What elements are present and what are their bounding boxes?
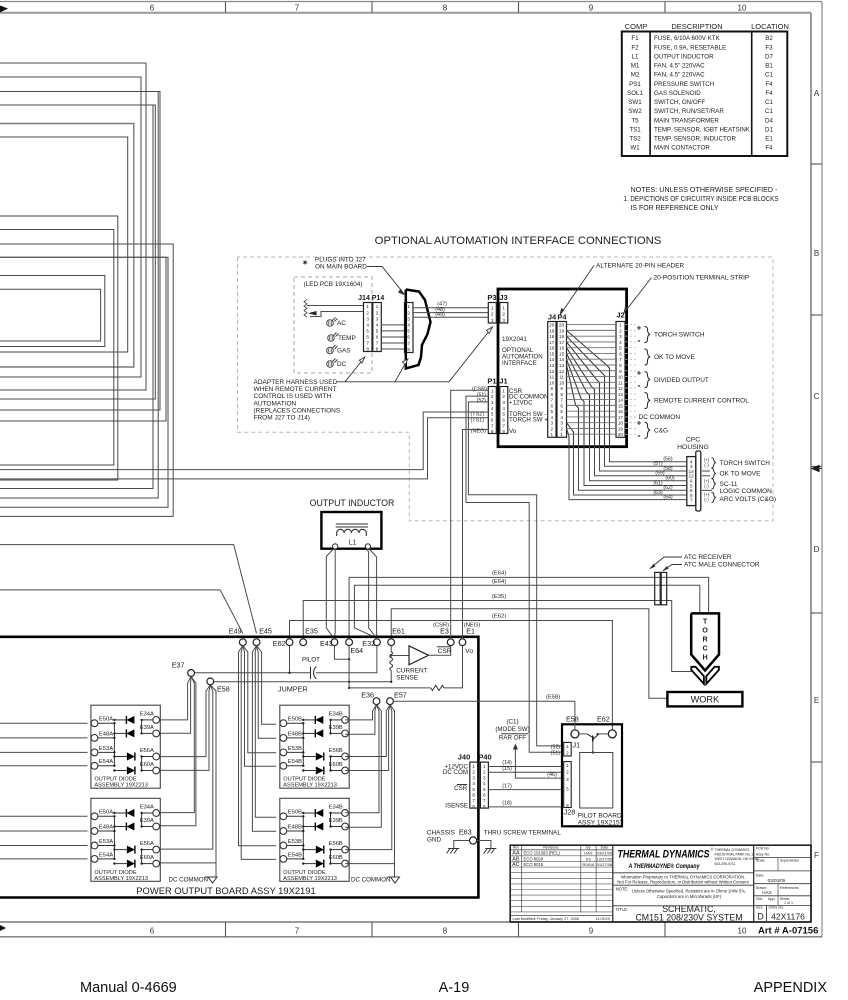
wires P4 to J2 rows: [567, 324, 617, 326]
svg-text:E58: E58: [566, 715, 579, 724]
svg-text:01/27/06: 01/27/06: [597, 862, 613, 867]
svg-text:1: 1: [619, 323, 622, 328]
svg-text:+12VDC: +12VDC: [509, 399, 533, 406]
svg-text:NOTE:: NOTE:: [616, 886, 629, 891]
sheet centre arrow top-left: [0, 6, 8, 13]
svg-text:Date:: Date:: [756, 874, 765, 878]
svg-text:4: 4: [491, 406, 494, 411]
svg-text:-: -: [638, 430, 641, 440]
terminal E39A: [153, 823, 160, 830]
sheet centre arrow right: [811, 465, 820, 472]
svg-text:2: 2: [566, 751, 569, 756]
svg-text:Supersedes: Supersedes: [780, 859, 799, 863]
svg-text:6: 6: [619, 351, 622, 356]
svg-text:5: 5: [483, 787, 486, 792]
svg-text:DC: DC: [337, 361, 347, 368]
terminal E53A: [91, 749, 98, 756]
svg-text:THRU SCREW TERMINAL: THRU SCREW TERMINAL: [484, 830, 562, 837]
svg-text:C&G: C&G: [654, 428, 668, 435]
svg-text:Manual 0-4669: Manual 0-4669: [80, 980, 177, 996]
svg-text:OK TO MOVE: OK TO MOVE: [654, 354, 696, 361]
svg-text:17: 17: [559, 340, 565, 345]
svg-text:5: 5: [619, 346, 622, 351]
svg-text:E45: E45: [259, 627, 272, 636]
LED indicator DC: [327, 361, 334, 368]
svg-text:11: 11: [549, 375, 554, 380]
svg-text:2: 2: [560, 426, 563, 431]
svg-text:(14): (14): [502, 760, 512, 766]
svg-text:GAS SOLENOID: GAS SOLENOID: [654, 90, 701, 97]
svg-text:H: H: [702, 653, 707, 662]
svg-text:OK TO MOVE: OK TO MOVE: [720, 471, 762, 478]
svg-text:R: R: [702, 635, 708, 644]
svg-text:5: 5: [560, 409, 563, 414]
svg-text:6: 6: [491, 418, 494, 423]
terminal E39A: [153, 730, 160, 737]
svg-text:E50A: E50A: [99, 810, 113, 816]
svg-text:16: 16: [549, 346, 555, 351]
op-amp current sense amplifier: [391, 655, 409, 657]
svg-text:WEST LEBANON, NH 03784: WEST LEBANON, NH 03784: [715, 857, 759, 861]
svg-text:2: 2: [551, 426, 554, 431]
terminal E58 bundle: [207, 678, 214, 685]
svg-text:603-298-5711: 603-298-5711: [715, 862, 736, 866]
svg-text:9: 9: [589, 4, 594, 13]
ATC male connector bar: [661, 572, 667, 604]
svg-text:PS1: PS1: [629, 81, 641, 88]
svg-text:PLUGS INTO J27: PLUGS INTO J27: [315, 257, 366, 264]
svg-text:OUTPUT INDUCTOR: OUTPUT INDUCTOR: [310, 498, 395, 508]
leader arrow to adapter connector: [395, 360, 408, 382]
svg-text:R0916: R0916: [583, 862, 596, 867]
diodes (B): [315, 809, 323, 817]
svg-text:4: 4: [502, 406, 505, 411]
svg-text:C: C: [814, 392, 820, 401]
svg-text:(15): (15): [502, 766, 512, 772]
svg-text:7: 7: [551, 398, 554, 403]
wire E64 net 2 to ATC and torch: [354, 585, 699, 637]
svg-text:10: 10: [549, 380, 555, 385]
svg-text:2: 2: [483, 770, 486, 775]
svg-text:THERMAL DYNAMICS: THERMAL DYNAMICS: [618, 848, 711, 860]
svg-text:F1: F1: [631, 35, 639, 42]
svg-text:E37: E37: [172, 660, 185, 669]
svg-text:E35: E35: [305, 627, 318, 636]
svg-text:1: 1: [366, 304, 369, 309]
terminal E49: [239, 639, 246, 646]
wire TS1 net from sheet left to P1 pin 6: [0, 418, 489, 479]
component table box: [622, 32, 788, 157]
svg-text:APPENDIX: APPENDIX: [754, 980, 828, 996]
svg-text:3: 3: [502, 318, 505, 324]
wire loop from left sheet half #13: [0, 230, 114, 466]
svg-text:E58: E58: [217, 685, 230, 694]
terminal E39B: [342, 823, 349, 830]
svg-text:7: 7: [407, 341, 410, 346]
svg-text:E48A: E48A: [99, 824, 113, 830]
svg-text:P40: P40: [478, 753, 491, 762]
chassis ground symbol left: [454, 841, 470, 849]
dashed boundary of optional automation illustration: [238, 257, 774, 521]
terminal E35: [300, 639, 307, 646]
inductor terminal left: [333, 544, 338, 549]
svg-text:ISENSE: ISENSE: [445, 802, 468, 809]
svg-text:9: 9: [560, 386, 563, 391]
svg-text:ATC RECEIVER: ATC RECEIVER: [684, 554, 732, 561]
svg-text:TEMP. SENSOR, INDUCTOR: TEMP. SENSOR, INDUCTOR: [654, 136, 736, 143]
svg-text:CSR: CSR: [454, 785, 468, 792]
terminal E39B: [342, 730, 349, 737]
pilot terminal E62: [608, 730, 616, 738]
svg-text:(49): (49): [435, 312, 445, 318]
svg-text:E54B: E54B: [288, 759, 302, 765]
leader arrow to adapter: [367, 267, 405, 296]
svg-text:TORCH SW +: TORCH SW +: [509, 417, 548, 424]
svg-text:J1: J1: [499, 377, 507, 386]
svg-text:B: B: [814, 249, 819, 258]
svg-text:SW1: SW1: [628, 99, 642, 106]
svg-text:E32: E32: [362, 639, 375, 648]
svg-text:1: 1: [566, 763, 569, 768]
svg-text:(E64): (E64): [492, 570, 506, 576]
terminal E32: [374, 639, 381, 646]
svg-text:E50A: E50A: [99, 717, 113, 723]
svg-text:15: 15: [559, 351, 565, 356]
svg-text:5: 5: [491, 412, 494, 417]
svg-text:5: 5: [366, 328, 369, 333]
svg-text:ECO 101583 (REL): ECO 101583 (REL): [524, 851, 561, 856]
svg-text:6: 6: [150, 927, 155, 936]
svg-text:E43: E43: [320, 639, 333, 648]
svg-text:16: 16: [559, 346, 565, 351]
svg-text:8: 8: [366, 347, 369, 352]
svg-text:4: 4: [376, 322, 379, 327]
svg-text:1: 1: [566, 744, 569, 749]
svg-text:E49: E49: [229, 627, 242, 636]
terminal E50B: [280, 813, 287, 820]
svg-text:Vo: Vo: [465, 648, 473, 655]
wire loop from left sheet half #2: [0, 92, 158, 499]
svg-text:E56A: E56A: [140, 748, 154, 754]
wire bundle E45 to E50B E48B: [252, 646, 276, 832]
svg-text:L1: L1: [349, 540, 357, 547]
svg-text:19: 19: [618, 426, 624, 431]
svg-text:By: By: [586, 846, 590, 850]
svg-text:HOUSING: HOUSING: [677, 444, 709, 451]
LED indicator TEMP: [328, 335, 335, 342]
RAR OFF arrow and wire 46 to pilot J28 pin3: [515, 746, 562, 778]
svg-text:PCB No:: PCB No:: [756, 846, 770, 850]
svg-text:(17): (17): [502, 783, 512, 789]
wire to terminal E49 from sheet left: [0, 590, 243, 633]
svg-text:Size: Size: [756, 906, 763, 910]
terminal E43: [331, 639, 338, 646]
diodes (B): [315, 716, 323, 724]
wire bundle E36 to E34B E39B: [345, 705, 376, 720]
svg-text:AC: AC: [512, 862, 520, 868]
svg-text:ARC VOLTS (C&G): ARC VOLTS (C&G): [720, 496, 777, 503]
svg-text:OUTPUT INDUCTOR: OUTPUT INDUCTOR: [654, 53, 714, 60]
svg-text:FUSE, 6/10A 600V KTK: FUSE, 6/10A 600V KTK: [654, 35, 721, 42]
svg-text:4: 4: [366, 322, 369, 327]
svg-text:10: 10: [618, 375, 624, 380]
wires from automation box to CPC: [610, 447, 687, 462]
leader arrow to J2: [624, 278, 652, 314]
svg-text:OPTIONAL AUTOMATION INTERFACE: OPTIONAL AUTOMATION INTERFACE CONNECTION…: [375, 235, 662, 247]
svg-text:T: T: [703, 617, 708, 626]
wires 47 48 49 adapter to P3: [413, 307, 488, 309]
svg-text:20: 20: [559, 323, 565, 328]
svg-text:JUMPER: JUMPER: [278, 685, 308, 694]
CPC housing body: [696, 451, 701, 511]
terminal E34A: [153, 717, 160, 724]
svg-text:7: 7: [472, 798, 475, 803]
svg-text:13: 13: [618, 392, 624, 397]
svg-text:ECO 8028: ECO 8028: [524, 856, 544, 861]
leader arrow to P3 connector: [449, 328, 492, 382]
svg-text:5: 5: [566, 787, 569, 792]
svg-text:D: D: [757, 912, 764, 922]
svg-text:4: 4: [472, 781, 475, 786]
svg-text:INDUSTRIAL PARK No. 2: INDUSTRIAL PARK No. 2: [715, 853, 754, 857]
svg-text:F4: F4: [765, 81, 773, 88]
wire 14 P40 pin1 to pilot J28 pin1: [488, 766, 562, 768]
svg-text:WORK: WORK: [691, 695, 720, 705]
svg-text:3: 3: [551, 421, 554, 426]
svg-text:DC COMMON: DC COMMON: [351, 877, 391, 884]
svg-text:F4: F4: [765, 90, 773, 97]
zone letter band right: [811, 163, 822, 165]
svg-text:M2: M2: [631, 72, 640, 79]
svg-text:2: 2: [502, 312, 505, 318]
connector J28 pilot: [564, 762, 572, 808]
svg-text:ASSEMBLY 19X2213: ASSEMBLY 19X2213: [94, 876, 148, 882]
svg-text:Capacitors are in Microfarads: Capacitors are in Microfarads (UF): [657, 894, 722, 899]
svg-text:10: 10: [738, 4, 747, 13]
wires left diode assemblies to sheet left: [0, 722, 88, 724]
svg-text:E64: E64: [350, 646, 363, 655]
terminal E56B: [342, 753, 349, 760]
svg-text:PRESSURE SWITCH: PRESSURE SWITCH: [654, 81, 714, 88]
svg-text:DESCRIPTION: DESCRIPTION: [671, 22, 722, 31]
svg-text:6: 6: [376, 334, 379, 339]
inductor terminal right: [365, 544, 370, 549]
title block middle dividers: [753, 845, 755, 922]
svg-text:13: 13: [559, 363, 565, 368]
inductor L1 box: [321, 512, 381, 549]
svg-text:WHEN REMOTE CURRENT: WHEN REMOTE CURRENT: [254, 386, 337, 393]
svg-text:11:05:29: 11:05:29: [596, 917, 611, 921]
wire loop from left sheet half #10: [0, 257, 168, 507]
svg-text:5: 5: [472, 787, 475, 792]
inner drawing border right: [810, 13, 812, 922]
CPC annotation ok to move: [702, 470, 710, 472]
svg-text:Chk:: Chk:: [756, 897, 763, 901]
terminal E60B: [342, 860, 349, 867]
terminal E56A: [153, 846, 160, 853]
svg-text:E34B: E34B: [329, 712, 343, 718]
svg-text:M1: M1: [631, 63, 640, 70]
wire loop from left sheet half #6: [0, 77, 141, 377]
svg-text:E36: E36: [361, 690, 374, 699]
terminal E1: [459, 639, 466, 646]
svg-text:INTERFACE: INTERFACE: [502, 360, 537, 367]
svg-text:8: 8: [376, 347, 379, 352]
svg-text:8: 8: [443, 927, 448, 936]
terminal E34B: [342, 717, 349, 724]
svg-text:J2: J2: [616, 311, 624, 320]
svg-text:8: 8: [443, 4, 448, 13]
svg-text:F: F: [814, 851, 819, 860]
svg-text:14: 14: [559, 357, 565, 362]
J2 annotation ok to move: [645, 349, 651, 365]
svg-text:C1: C1: [765, 72, 773, 79]
svg-text:TORCH SWITCH: TORCH SWITCH: [654, 332, 705, 339]
svg-text:1: 1: [502, 388, 505, 393]
svg-text:3: 3: [483, 775, 486, 780]
svg-text:DC COMMON: DC COMMON: [169, 877, 209, 884]
svg-text:PILOT BOARD: PILOT BOARD: [578, 812, 622, 819]
svg-text:B1: B1: [765, 63, 773, 70]
svg-text:GND: GND: [427, 837, 442, 844]
svg-text:Revisions: Revisions: [543, 846, 559, 850]
svg-text:E54A: E54A: [99, 759, 113, 765]
svg-text:9: 9: [589, 927, 594, 936]
svg-text:DWG No:: DWG No:: [769, 906, 784, 910]
rail E58 to current sense resistor: [210, 682, 391, 685]
svg-text:7: 7: [560, 398, 563, 403]
svg-text:14: 14: [549, 357, 555, 362]
wire P1 pin2 to pilot J1 pin2: [466, 396, 562, 752]
svg-text:(CSR): (CSR): [433, 622, 449, 628]
torch chevron left: [691, 667, 704, 684]
terminal E56A: [153, 753, 160, 760]
wire work return from E61: [391, 609, 667, 699]
power output board outline: [0, 637, 478, 898]
svg-text:ON MAIN BOARD: ON MAIN BOARD: [315, 264, 367, 271]
svg-text:ASSY 19X2157: ASSY 19X2157: [578, 820, 624, 827]
J2 annotation remote current control: [645, 393, 651, 409]
svg-text:MAIN TRANSFORMER: MAIN TRANSFORMER: [654, 117, 719, 124]
title block outline: [510, 845, 811, 922]
svg-text:✶: ✶: [301, 258, 308, 268]
svg-text:SOL1: SOL1: [627, 90, 643, 97]
wire P1 pin3 to pilot J1 pin1: [468, 402, 562, 746]
svg-text:ASSEMBLY 19X2213: ASSEMBLY 19X2213: [94, 783, 148, 789]
sheet centre arrow bottom-left: [0, 925, 6, 931]
svg-text:03/21/05: 03/21/05: [597, 851, 613, 856]
svg-text:18: 18: [549, 334, 555, 339]
terminal E37 bundle: [188, 670, 195, 677]
terminal E34B: [342, 810, 349, 817]
diode assembly internal wiring (A): [113, 816, 115, 859]
svg-text:(57): (57): [653, 461, 662, 467]
svg-text:3: 3: [491, 318, 494, 324]
wire 15 P40 pin2 to pilot J28 pin2: [488, 771, 562, 773]
svg-text:P1: P1: [487, 377, 496, 386]
leader to ATC receiver bar: [650, 557, 682, 569]
svg-text:20: 20: [618, 432, 624, 437]
svg-text:E50B: E50B: [288, 810, 302, 816]
svg-text:3: 3: [560, 421, 563, 426]
svg-text:COMP: COMP: [625, 22, 648, 31]
svg-text:2: 2: [366, 310, 369, 315]
wire E35 net to ATC chevron: [303, 601, 693, 672]
svg-text:1: 1: [560, 432, 563, 437]
svg-text:13: 13: [549, 363, 555, 368]
svg-text:3: 3: [566, 777, 569, 782]
pilot board outline: [562, 724, 622, 826]
svg-text:2: 2: [472, 770, 475, 775]
svg-text:15: 15: [618, 403, 624, 408]
wire bundle E57 to E56B E60B: [345, 705, 390, 757]
wire E62 riser to pilot rail: [289, 646, 291, 673]
svg-text:Vo: Vo: [509, 428, 517, 435]
wire 17 P40 pin5 to pilot J28 pin5: [488, 789, 562, 791]
svg-text:(-): (-): [704, 497, 709, 502]
svg-text:6: 6: [551, 403, 554, 408]
pilot terminal E58: [571, 730, 579, 738]
wire loop from left sheet half #11: [0, 257, 166, 421]
svg-text:CHASSIS: CHASSIS: [427, 830, 455, 837]
svg-text:References: References: [780, 886, 799, 890]
svg-text:6: 6: [560, 403, 563, 408]
svg-text:P4: P4: [557, 313, 567, 322]
svg-text:ECO 8016: ECO 8016: [524, 862, 544, 867]
terminal E50A: [91, 720, 98, 727]
svg-text:(59): (59): [655, 471, 664, 477]
svg-text:2: 2: [491, 312, 494, 318]
adapter harness connector pins: [405, 303, 414, 353]
svg-text:1: 1: [491, 388, 494, 393]
svg-text:IS FOR REFERENCE ONLY: IS FOR REFERENCE ONLY: [631, 203, 719, 212]
wire loop from left sheet half #5: [0, 63, 146, 390]
svg-text:(E62): (E62): [492, 614, 506, 620]
svg-text:(REPLACES CONNECTIONS: (REPLACES CONNECTIONS: [254, 407, 341, 414]
svg-text:C1: C1: [765, 99, 773, 106]
svg-text:SWITCH, RUN/SET/RAR: SWITCH, RUN/SET/RAR: [654, 108, 724, 115]
svg-text:3: 3: [366, 316, 369, 321]
svg-text:16: 16: [618, 409, 624, 414]
svg-text:(61): (61): [653, 480, 662, 486]
svg-text:12: 12: [549, 369, 555, 374]
svg-text:TS2: TS2: [629, 136, 641, 143]
svg-text:6: 6: [502, 418, 505, 423]
svg-text:6: 6: [150, 4, 155, 13]
svg-text:5: 5: [376, 328, 379, 333]
diode assembly internal wiring (B): [302, 723, 304, 766]
svg-text:7: 7: [295, 927, 300, 936]
output diode assembly box (B): [280, 798, 349, 881]
terminal E60A: [153, 767, 160, 774]
svg-text:1: 1: [407, 304, 410, 309]
svg-text:SWITCH, ON/OFF: SWITCH, ON/OFF: [654, 99, 705, 106]
svg-text:A: A: [814, 89, 820, 98]
wire loop from left sheet half #14: [0, 276, 105, 347]
svg-text:App:: App:: [768, 897, 775, 901]
terminal E45: [253, 639, 260, 646]
svg-text:19: 19: [559, 328, 565, 333]
svg-text:5: 5: [407, 329, 410, 334]
diodes (A): [126, 716, 134, 724]
svg-text:4: 4: [551, 415, 554, 420]
wire loop from left sheet half #8: [0, 137, 128, 352]
CPC pin block: [687, 457, 696, 506]
svg-text:6: 6: [483, 793, 486, 798]
svg-text:TITLE:: TITLE:: [616, 907, 629, 912]
svg-text:5: 5: [502, 412, 505, 417]
svg-text:2: 2: [619, 328, 622, 333]
